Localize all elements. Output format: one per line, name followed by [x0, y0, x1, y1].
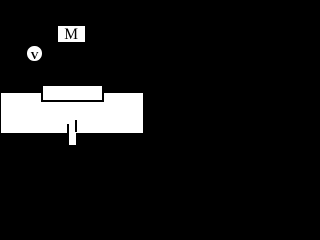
- block outline: [41, 86, 105, 101]
- label M: [58, 27, 85, 43]
- leg hidden edge left: [67, 124, 69, 133]
- label V: [27, 49, 41, 63]
- voltmeter circle V: [27, 46, 42, 61]
- bench top: [1, 93, 142, 133]
- block: [43, 86, 103, 100]
- leg: [69, 133, 77, 146]
- leg hidden edge right: [75, 120, 77, 133]
- motor box M: [58, 26, 85, 42]
